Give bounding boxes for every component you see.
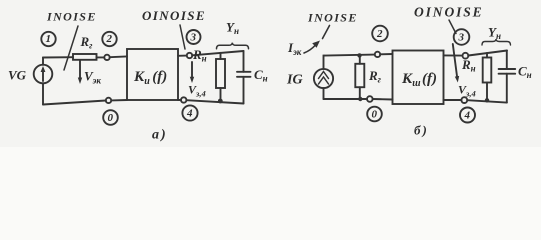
svg-text:0: 0 <box>108 112 114 124</box>
svg-text:а): а) <box>152 128 168 143</box>
capacitor Cn bottom wire <box>243 77 245 104</box>
wire: IG bottom stub <box>323 88 325 99</box>
INOISE pointer slash b <box>323 26 330 39</box>
amplifier box Ku(f) <box>127 49 178 100</box>
wire: bottom rail to VG branch <box>43 101 106 105</box>
svg-text:OINOISE: OINOISE <box>142 8 206 23</box>
node 0 circle <box>103 110 118 125</box>
node 2 circle <box>102 32 116 46</box>
svg-text:OINOISE: OINOISE <box>414 4 484 19</box>
resistor Rn (vertical box) <box>216 59 225 88</box>
junction at Rg bottom <box>358 97 362 101</box>
current source IG circle <box>314 69 333 88</box>
wire: terminal to K box bottom <box>178 99 181 101</box>
wire: box to terminal <box>97 56 105 58</box>
svg-text:2: 2 <box>106 33 113 45</box>
svg-text:VG: VG <box>8 68 27 83</box>
INOISE pointer slash a <box>64 26 78 70</box>
svg-text:IG: IG <box>286 73 303 88</box>
resistor Rg stub bottom <box>359 87 361 99</box>
svg-text:3: 3 <box>190 32 197 44</box>
wire: top rail b left <box>324 55 375 56</box>
junction at Rn bottom <box>218 99 223 104</box>
resistor Rn stub bottom <box>220 88 222 101</box>
resistor Rn b stub bottom <box>486 83 488 101</box>
svg-text:1: 1 <box>46 33 52 45</box>
resistor Rg stub top <box>359 55 361 63</box>
resistor Rg (vertical box) <box>355 64 364 87</box>
terminal node 2 (on rail) <box>104 55 109 60</box>
wire: terminal to box right bottom <box>444 99 462 101</box>
svg-text:4: 4 <box>464 110 471 122</box>
node 3 b circle <box>454 29 470 45</box>
IG double chevron up <box>319 72 329 79</box>
wire: left vertical branch of VG <box>42 58 44 65</box>
wire: K box to output terminal (top) <box>178 55 187 57</box>
wire: Ksh box to output terminal top <box>444 54 463 56</box>
node 4 circle <box>182 105 197 120</box>
V_3,4 arrow a (down) <box>191 62 193 80</box>
resistor Rn b (vertical box) <box>483 58 492 83</box>
capacitor Cn plates <box>237 71 251 73</box>
svg-text:б): б) <box>414 123 429 138</box>
capacitor Cn b bottom wire <box>506 74 508 103</box>
wire: bottom rail a left <box>111 99 127 101</box>
wire: top rail a left <box>43 56 73 58</box>
resistor Rn stub top <box>220 53 222 59</box>
wire: bottom rail b left <box>324 98 368 100</box>
node 0 b circle <box>367 107 382 122</box>
wire: bottom rail b right <box>467 100 507 102</box>
I_ek curved arrow <box>304 45 316 53</box>
brace Yn a <box>217 43 249 49</box>
terminal node 4 (on rail) <box>181 97 186 102</box>
svg-text:INOISE: INOISE <box>46 10 97 24</box>
svg-text:4: 4 <box>186 108 193 120</box>
wire: IG top stub and corner <box>323 56 326 69</box>
node 3 circle <box>187 30 201 44</box>
svg-text:3: 3 <box>458 32 465 44</box>
capacitor Cn b top wire <box>506 51 508 70</box>
wire: top rail a right <box>192 51 243 55</box>
terminal node 3 (on rail) <box>187 53 192 58</box>
node 2 b circle <box>372 26 388 42</box>
wire: terminal to Ksh box <box>380 53 392 55</box>
voltage source VG circle <box>34 65 53 84</box>
terminal node 4 b (on rail) <box>461 97 467 103</box>
svg-text:INOISE: INOISE <box>307 11 358 25</box>
svg-text:2: 2 <box>376 28 383 40</box>
resistor Rg (horizontal box) <box>73 54 97 60</box>
resistor Rn b stub top <box>486 53 488 58</box>
VG arrow up <box>42 69 44 81</box>
node 1 circle <box>41 32 55 46</box>
OINOISE pointer slash b <box>449 20 456 34</box>
wire: terminal to K box <box>110 55 127 58</box>
amplifier box Ksh(f) <box>393 51 444 105</box>
OINOISE pointer slash a <box>180 25 185 49</box>
terminal node 2 b (on rail) <box>375 52 380 57</box>
wire: terminal to box bottom <box>373 98 393 101</box>
node 4 b circle <box>460 108 475 123</box>
capacitor Cn b plates <box>499 68 516 70</box>
V_3,4 arrow b (long, down) <box>453 44 458 79</box>
wire: bottom rail a right <box>187 100 244 103</box>
terminal node 0 (on rail) <box>106 98 111 103</box>
wire: top rail b right <box>468 51 507 56</box>
V_ek arrow (down) <box>79 60 81 80</box>
terminal node 3 b (on rail) <box>463 53 469 59</box>
brace Yn b <box>482 39 511 45</box>
svg-text:0: 0 <box>372 109 378 121</box>
capacitor Cn top wire <box>243 51 245 72</box>
junction at Rg top <box>357 53 361 57</box>
junction at Rn b bottom <box>485 98 489 102</box>
terminal node 0 b (on rail) <box>367 96 373 102</box>
